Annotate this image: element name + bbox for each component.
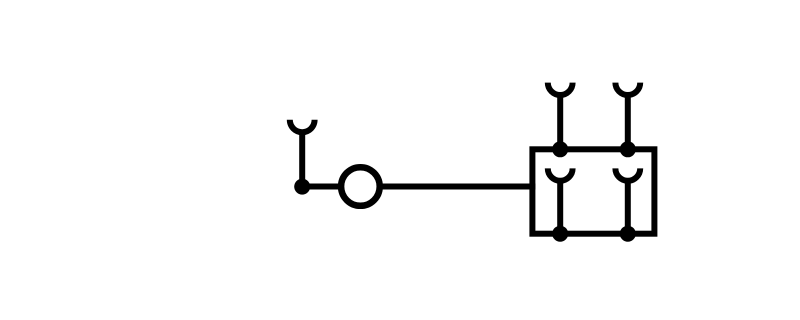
top contact stem wire 1 bbox=[557, 93, 563, 149]
top plug contact socket arc 1 bbox=[548, 83, 573, 95]
wire from node to test circle bbox=[302, 184, 341, 190]
top plug contact socket arc 2 bbox=[615, 83, 640, 95]
top contact stem wire 2 bbox=[625, 93, 631, 149]
inner socket contact arc 1 bbox=[548, 168, 573, 180]
junction node on box bottom edge 2 bbox=[620, 226, 636, 242]
inner socket contact arc 2 bbox=[615, 168, 640, 180]
inner contact stem wire 2 bbox=[625, 179, 631, 234]
inner contact stem wire 1 bbox=[557, 179, 563, 234]
wire from circle to terminal box bbox=[380, 184, 536, 190]
left plug contact socket arc X1 bbox=[290, 120, 315, 132]
terminal block body rectangle bbox=[532, 149, 654, 233]
junction node on box top edge 1 bbox=[552, 141, 568, 157]
left contact stem wire bbox=[299, 131, 305, 187]
junction node on box bottom edge 1 bbox=[552, 226, 568, 242]
test point circle bbox=[341, 167, 380, 206]
junction node on box top edge 2 bbox=[620, 141, 636, 157]
junction node at left contact bbox=[294, 179, 310, 195]
